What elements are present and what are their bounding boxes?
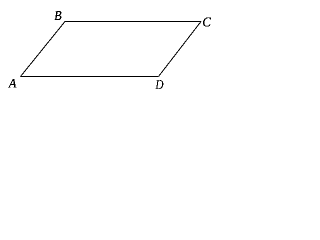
svg-text:B: B (54, 9, 62, 24)
side AD (bottom horizontal) (21, 76, 159, 78)
vertex label D (155, 78, 164, 93)
svg-text:C: C (202, 16, 211, 31)
svg-text:D: D (155, 78, 164, 93)
vertex label B (54, 9, 62, 24)
svg-text:A: A (8, 77, 17, 91)
side BC (top horizontal) (65, 21, 202, 23)
vertex label C (202, 16, 211, 31)
side AB (left slant) (21, 22, 66, 77)
side DC (right slant) (159, 22, 202, 77)
vertex label A (8, 77, 17, 91)
